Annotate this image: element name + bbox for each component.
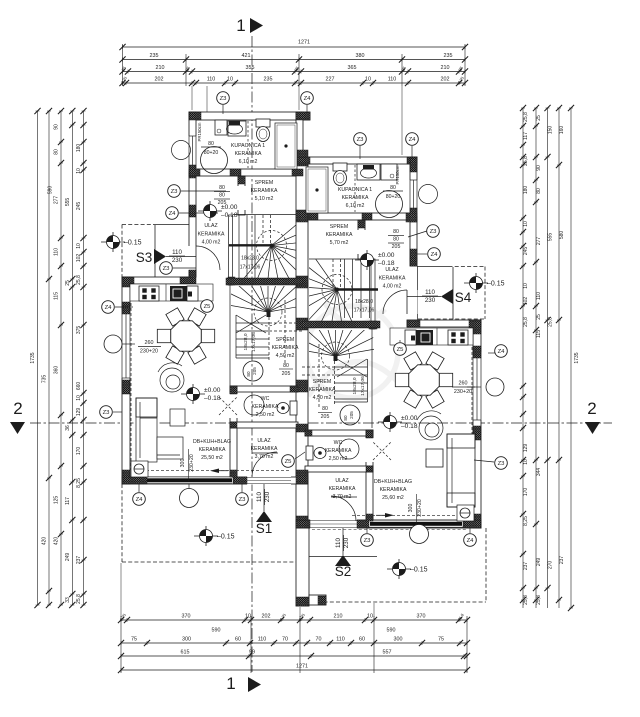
svg-text:365: 365: [348, 65, 357, 71]
column block 49: [305, 430, 312, 436]
svg-text:230+20: 230+20: [417, 499, 423, 517]
svg-text:210: 210: [441, 65, 450, 71]
svg-text:10: 10: [76, 395, 82, 401]
wall left-unit west: [122, 277, 130, 484]
wall left WC west: [230, 386, 237, 477]
svg-text:10: 10: [523, 221, 529, 227]
column block 16: [296, 276, 308, 288]
dining table right: [395, 352, 452, 408]
svg-text:S4: S4: [455, 290, 472, 305]
svg-text:660: 660: [76, 382, 82, 391]
axis marker 2 right: [585, 399, 600, 434]
marker S1: [256, 484, 273, 536]
right dimension lines: [520, 105, 580, 611]
svg-text:25,8: 25,8: [523, 156, 529, 166]
svg-text:235: 235: [444, 53, 453, 59]
callout Z4 left wall: [166, 207, 179, 220]
callout Z3 south-left: [236, 493, 249, 506]
svg-text:Z4: Z4: [105, 305, 113, 311]
svg-text:555: 555: [548, 233, 554, 242]
column block 12: [122, 277, 134, 287]
window left-unit west upper 80+20: [188, 136, 196, 172]
svg-text:8,25: 8,25: [523, 516, 529, 526]
WC right fixtures: [306, 439, 359, 460]
kitchen counter right: [390, 328, 473, 345]
column block 35: [410, 208, 417, 222]
svg-text:WC: WC: [334, 440, 343, 446]
svg-text:300: 300: [408, 504, 414, 513]
svg-text:270: 270: [548, 561, 554, 570]
svg-text:18x28,0: 18x28,0: [355, 299, 373, 305]
svg-text:DB+KUH+BLAG: DB+KUH+BLAG: [374, 479, 412, 485]
horizontal centerline axis 2: [30, 422, 612, 424]
door opening left sprem: [238, 186, 246, 210]
svg-text:80+20: 80+20: [386, 194, 401, 200]
svg-text:Z5: Z5: [397, 347, 405, 353]
column block 26: [122, 477, 147, 484]
staircase right unit upper flight: [291, 252, 378, 335]
svg-text:235: 235: [150, 53, 159, 59]
room labels left unit: [193, 143, 299, 461]
S4 porch edge line: [452, 267, 454, 319]
svg-text:PR150cm: PR150cm: [197, 122, 202, 141]
callout Z4 south-left: [133, 493, 146, 506]
svg-text:555: 555: [65, 198, 71, 207]
marker S2: [335, 528, 352, 579]
column block 33: [407, 157, 417, 164]
column block 24: [122, 380, 130, 394]
svg-text:80: 80: [246, 371, 251, 377]
svg-text:17x17,06: 17x17,06: [240, 265, 261, 271]
door opening right front: [310, 520, 357, 529]
column block 22: [122, 302, 130, 314]
svg-text:S2: S2: [335, 564, 352, 579]
dashed terrace S4 outline: [417, 266, 449, 268]
wall left-unit upper-left: [189, 112, 196, 277]
svg-text:KERAMIKA: KERAMIKA: [198, 232, 225, 238]
svg-text:230: 230: [172, 257, 183, 264]
callout Z4 right entry: [428, 248, 441, 261]
svg-text:10: 10: [76, 168, 82, 174]
wall left-unit south: [122, 477, 308, 484]
svg-text:10: 10: [523, 283, 529, 289]
svg-text:Z3: Z3: [498, 461, 506, 467]
marker S4: [407, 289, 472, 305]
stair cut line left: [229, 244, 272, 246]
column block 51: [366, 514, 373, 521]
svg-text:205: 205: [392, 244, 401, 250]
wall left-unit top: [189, 112, 310, 120]
column block 28: [230, 386, 237, 394]
column block 10: [228, 277, 235, 285]
callout leaders: [113, 105, 499, 533]
level marker S4 -0.15: [464, 273, 488, 293]
svg-text:36: 36: [65, 425, 71, 431]
column block 17: [296, 318, 308, 330]
svg-text:421: 421: [242, 53, 251, 59]
wall right kitchen top: [407, 320, 481, 327]
column block 44: [473, 426, 481, 440]
wall ulaz/sprem divider upper: [238, 176, 245, 215]
door arc right entrance: [383, 290, 407, 314]
S4 porch west boundary: [417, 267, 419, 321]
column block 4: [189, 169, 200, 176]
svg-text:10: 10: [76, 243, 82, 249]
svg-text:245: 245: [523, 247, 529, 256]
svg-text:202: 202: [262, 614, 271, 620]
svg-text:205: 205: [252, 367, 257, 375]
svg-text:25,8: 25,8: [523, 317, 529, 327]
svg-text:60: 60: [235, 637, 241, 643]
sofa right: [447, 434, 475, 507]
column block 2: [296, 112, 310, 120]
svg-text:277: 277: [54, 196, 60, 205]
svg-text:110: 110: [54, 248, 60, 256]
svg-text:580: 580: [559, 231, 565, 240]
callout Z3 south-right: [361, 534, 374, 547]
column block 3: [189, 165, 196, 178]
svg-text:180: 180: [76, 144, 82, 153]
column block 29: [290, 386, 298, 392]
level marker left entry: [198, 201, 222, 221]
svg-text:102: 102: [76, 254, 82, 263]
column block 54: [318, 596, 326, 605]
svg-text:420: 420: [42, 537, 48, 546]
window swing arc inside right bath: [376, 191, 403, 218]
svg-text:±0.00: ±0.00: [378, 252, 395, 259]
svg-text:300: 300: [182, 637, 191, 643]
wall left WC south: [230, 422, 298, 428]
svg-text:25,8: 25,8: [523, 112, 529, 122]
svg-text:230: 230: [343, 537, 350, 548]
svg-text:117: 117: [65, 497, 71, 505]
svg-text:KERAMIKA: KERAMIKA: [380, 487, 407, 493]
toilet right: [333, 163, 347, 171]
svg-text:60: 60: [359, 637, 365, 643]
column block 15: [296, 210, 308, 222]
top dim row 210-355-365-210: [123, 71, 466, 73]
sofa left: [136, 398, 183, 462]
svg-text:Z3: Z3: [103, 410, 111, 416]
svg-text:110: 110: [388, 77, 397, 83]
svg-text:230: 230: [264, 491, 271, 502]
door size labels: [138, 122, 475, 526]
wall left WC north: [230, 386, 298, 392]
top dimension lines: [119, 40, 468, 87]
svg-text:375: 375: [76, 326, 82, 335]
svg-text:117: 117: [523, 132, 529, 140]
terrace divider wall: [296, 528, 309, 606]
column block 39: [406, 213, 417, 222]
wall right WC north: [305, 430, 373, 436]
sink left: [228, 121, 246, 136]
column block 37: [309, 213, 318, 220]
svg-text:590: 590: [48, 186, 54, 195]
svg-text:170: 170: [523, 488, 529, 497]
wall right-unit south: [296, 520, 481, 528]
svg-text:5,70 m2: 5,70 m2: [330, 240, 349, 246]
svg-text:18x28,0: 18x28,0: [243, 333, 249, 350]
callout Z3 top-left: [217, 92, 230, 105]
svg-text:10: 10: [245, 614, 251, 620]
column block 8: [292, 169, 303, 176]
column block 14: [296, 150, 308, 166]
svg-text:KERAMIKA: KERAMIKA: [199, 447, 226, 453]
stair cut line right: [337, 288, 378, 290]
column block 6: [410, 249, 417, 261]
staircase right unit lower flight: [294, 314, 377, 428]
armchair square right: [426, 449, 443, 467]
S3 porch edge line: [154, 225, 156, 277]
svg-text:Z4: Z4: [409, 137, 417, 143]
svg-text:210: 210: [334, 614, 343, 620]
structural columns (hatched): [122, 112, 481, 606]
axis marker 1 top: [236, 16, 263, 35]
svg-text:Z3: Z3: [430, 229, 438, 235]
column block 45: [473, 514, 481, 528]
svg-text:260: 260: [145, 340, 154, 346]
svg-text:80: 80: [343, 415, 348, 421]
washer left: [215, 120, 227, 135]
svg-text:380: 380: [356, 53, 365, 59]
column block 48: [463, 520, 481, 528]
svg-text:KERAMIKA: KERAMIKA: [309, 387, 336, 393]
svg-text:260: 260: [459, 381, 468, 387]
door arc left front: [252, 452, 277, 477]
worktop appliance left: [187, 286, 198, 301]
column block 13: [180, 277, 192, 284]
svg-text:249: 249: [65, 553, 71, 562]
svg-text:1: 1: [226, 674, 235, 693]
door opening right sprem: [358, 230, 366, 254]
svg-text:KERAMIKA: KERAMIKA: [272, 345, 299, 351]
svg-text:18x28,0: 18x28,0: [241, 256, 259, 262]
column block 25: [122, 470, 130, 484]
window left-unit south 300/230+20 (black sill): [146, 477, 232, 483]
coffee table left: [170, 409, 185, 426]
svg-text:±0.00: ±0.00: [401, 415, 418, 422]
svg-text:25: 25: [536, 115, 542, 121]
svg-text:227: 227: [326, 77, 335, 83]
svg-text:Z3: Z3: [239, 497, 247, 503]
attic dashed line right bathroom: [354, 165, 356, 212]
svg-text:80: 80: [536, 188, 542, 194]
svg-text:25,8: 25,8: [76, 594, 82, 604]
door opening right entrance: [410, 290, 418, 314]
wall left kitchen top: [122, 277, 192, 284]
building walls: [122, 112, 481, 606]
wall right-unit upper-east: [410, 157, 417, 266]
eaves dashed line left wall: [130, 288, 132, 470]
callout Z4 top-right: [406, 133, 419, 146]
landscaping circle south-right: [410, 525, 429, 544]
svg-text:SPREM: SPREM: [276, 337, 294, 343]
level marker left terrace: [194, 526, 218, 546]
svg-text:1271: 1271: [298, 40, 310, 46]
svg-text:80: 80: [208, 141, 214, 147]
svg-text:4,50 m2: 4,50 m2: [276, 353, 295, 359]
svg-text:80: 80: [54, 149, 60, 155]
left dimension lines: [30, 108, 87, 608]
svg-text:Z4: Z4: [431, 252, 439, 258]
dashed terrace S3 outline: [122, 224, 155, 226]
eaves dashed line right wall: [471, 332, 473, 515]
svg-text:75: 75: [131, 637, 137, 643]
door opening left entrance: [189, 246, 197, 270]
entrance step line right: [309, 556, 377, 558]
staircase left unit upper flight: [229, 215, 317, 292]
svg-text:90: 90: [536, 165, 542, 171]
dashed terrace right front: [485, 528, 487, 602]
svg-text:125: 125: [54, 496, 60, 505]
svg-text:615: 615: [181, 650, 190, 656]
svg-text:70: 70: [282, 637, 288, 643]
bottom dim row 75-300-60-110-70-70-110-60-300-75: [121, 642, 467, 644]
svg-text:80: 80: [283, 363, 289, 369]
window swing circle right: [419, 185, 438, 204]
svg-text:±0.00: ±0.00: [204, 387, 221, 394]
svg-text:210: 210: [156, 65, 165, 71]
washer right: [381, 164, 397, 180]
svg-text:420: 420: [54, 537, 60, 546]
svg-text:557: 557: [383, 650, 392, 656]
svg-text:ULAZ: ULAZ: [204, 223, 217, 229]
svg-text:–0.18: –0.18: [378, 260, 395, 267]
svg-text:18x28,0: 18x28,0: [352, 377, 358, 394]
svg-text:KERAMIKA: KERAMIKA: [379, 276, 406, 282]
svg-text:–0.15: –0.15: [487, 281, 505, 288]
svg-text:10: 10: [365, 77, 371, 83]
svg-text:110: 110: [335, 538, 342, 548]
svg-text:3,70 m2: 3,70 m2: [333, 494, 352, 500]
svg-text:360: 360: [54, 366, 60, 375]
wall ulaz/sprem divider right upper: [358, 220, 365, 259]
eaves arrow right: [385, 513, 394, 518]
column block 50: [366, 430, 373, 438]
column block 43: [469, 320, 481, 334]
armchair left: [158, 363, 184, 392]
svg-text:ULAZ: ULAZ: [335, 478, 348, 484]
svg-text:249: 249: [536, 558, 542, 567]
callout Z3 east sofa: [495, 457, 508, 470]
svg-text:25,8: 25,8: [76, 275, 82, 285]
column block 9: [238, 176, 245, 184]
svg-text:70: 70: [316, 637, 322, 643]
window right-unit south 300/230+20 (black sill): [369, 520, 463, 527]
svg-text:80: 80: [393, 237, 399, 243]
sink right: [357, 164, 380, 180]
level marker left living: [181, 384, 205, 404]
svg-text:Z3: Z3: [163, 266, 171, 272]
shower right: [306, 167, 328, 213]
window callout circle left: [104, 335, 122, 353]
svg-text:90: 90: [54, 124, 60, 130]
svg-text:110: 110: [258, 637, 267, 643]
svg-text:25,8: 25,8: [548, 317, 554, 327]
dashed line below right south wall: [312, 529, 468, 531]
svg-text:KERAMIKA: KERAMIKA: [251, 188, 278, 194]
svg-text:80: 80: [322, 406, 328, 412]
svg-text:DB+KUH+BLAG: DB+KUH+BLAG: [193, 439, 231, 445]
column block 40: [358, 220, 365, 228]
column block 7: [230, 169, 241, 176]
svg-text:370: 370: [182, 614, 191, 620]
callout Z5 left kitchen: [201, 300, 214, 313]
svg-text:10: 10: [367, 614, 373, 620]
column block 41: [369, 321, 377, 329]
svg-text:ULAZ: ULAZ: [257, 438, 270, 444]
svg-text:1271: 1271: [296, 664, 308, 670]
svg-text:80: 80: [219, 185, 225, 191]
svg-text:202: 202: [441, 77, 450, 83]
svg-text:5,10 m2: 5,10 m2: [255, 196, 274, 202]
column block 1: [189, 112, 201, 120]
svg-text:–0.15: –0.15: [410, 567, 428, 574]
party wall upper narrow: [296, 112, 303, 157]
svg-text:SPREM: SPREM: [255, 180, 273, 186]
wall right WC south: [305, 466, 373, 472]
corner unit left: [131, 461, 148, 477]
dim connector lines: [191, 86, 193, 110]
callout Z5 right kitchen: [394, 343, 407, 356]
svg-text:PR150cm: PR150cm: [395, 165, 400, 184]
stair landing wall left: [226, 278, 303, 285]
door arc right front: [331, 496, 356, 521]
WC door dashes right: [373, 442, 391, 460]
sink unit dark left: [170, 286, 187, 301]
column block 34: [410, 157, 417, 172]
column block 19: [296, 424, 308, 432]
svg-text:344: 344: [536, 468, 542, 477]
partition ulaz/stair left: [229, 215, 233, 285]
callout Z5 center: [282, 455, 295, 468]
svg-text:110: 110: [172, 249, 182, 256]
svg-text:25,60 m2: 25,60 m2: [382, 495, 404, 501]
column block 42: [407, 320, 420, 327]
svg-text:25,8: 25,8: [523, 595, 529, 605]
axis marker 2 left: [10, 399, 25, 434]
door opening right WC: [366, 438, 374, 462]
svg-text:KERAMIKA: KERAMIKA: [329, 486, 356, 492]
partition ulaz/stair right: [371, 259, 375, 329]
window callout circle right: [486, 378, 504, 396]
stair landing wall right: [302, 321, 380, 328]
shower left: [275, 123, 297, 169]
svg-text:230: 230: [425, 297, 436, 304]
svg-text:Z4: Z4: [467, 538, 475, 544]
column block 27: [233, 477, 247, 484]
callout Z3 west wall: [100, 406, 113, 419]
svg-text:17x17,06: 17x17,06: [251, 332, 257, 352]
svg-text:±0.00: ±0.00: [221, 204, 238, 211]
svg-text:2: 2: [587, 399, 596, 418]
svg-text:80: 80: [390, 185, 396, 191]
svg-text:180: 180: [523, 186, 529, 195]
svg-text:370: 370: [417, 614, 426, 620]
level marker right terrace: [387, 559, 411, 579]
svg-text:4,00 m2: 4,00 m2: [383, 284, 402, 290]
landscaping circle south-left: [180, 489, 199, 508]
svg-text:KERAMIKA: KERAMIKA: [251, 446, 278, 452]
svg-text:8,25: 8,25: [76, 478, 82, 488]
svg-text:115: 115: [54, 292, 60, 300]
svg-text:237: 237: [76, 556, 82, 565]
svg-text:S3: S3: [136, 250, 153, 265]
svg-text:10: 10: [227, 77, 233, 83]
toilet left: [256, 119, 270, 127]
svg-text:–0.18: –0.18: [221, 212, 238, 219]
column block 23: [473, 346, 481, 358]
